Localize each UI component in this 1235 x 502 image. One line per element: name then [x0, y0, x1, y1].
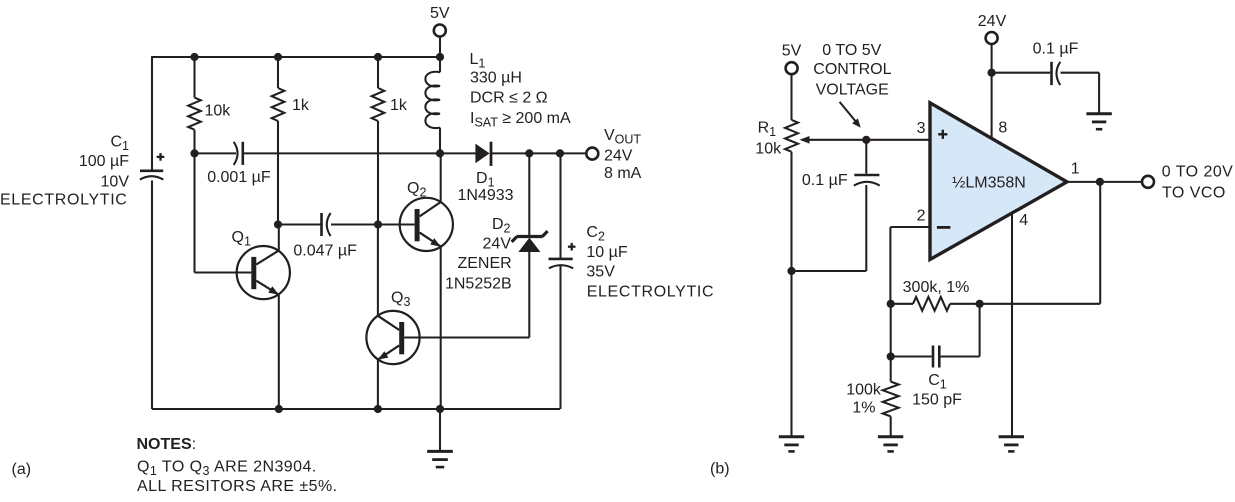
ground (pin 4) [999, 437, 1024, 452]
svg-text:0.001 µF: 0.001 µF [207, 169, 271, 186]
svg-text:ELECTROLYTIC: ELECTROLYTIC [0, 192, 128, 209]
svg-text:10 µF: 10 µF [586, 244, 627, 261]
wire pin 4 [1012, 212, 1028, 436]
wire Q1 collector [278, 225, 280, 251]
terminal 24V [978, 13, 1008, 139]
node Q1 emitter at rail [275, 405, 283, 413]
resistor 10k [188, 57, 231, 153]
svg-text:10k: 10k [755, 141, 782, 158]
pin 3 [917, 120, 926, 137]
node 0.1uF return [787, 267, 795, 275]
node 300k left [887, 300, 895, 308]
node L1 bottom [436, 149, 444, 157]
label control voltage [813, 42, 891, 98]
terminal VOUT [586, 127, 641, 182]
node 1k-2 top [274, 53, 282, 61]
node 24V [988, 69, 996, 77]
svg-text:0 TO 20V: 0 TO 20V [1162, 163, 1234, 180]
svg-text:0.1 µF: 0.1 µF [802, 172, 848, 189]
wire 0.047 row left [278, 223, 321, 225]
node C1 left [887, 352, 895, 360]
svg-text:½LM358N: ½LM358N [952, 175, 1026, 192]
wire pin 1 output [1066, 160, 1142, 182]
svg-text:1k: 1k [292, 97, 310, 114]
capacitor 0.001 uF [207, 142, 271, 186]
svg-text:4: 4 [1019, 212, 1028, 229]
svg-text:NOTES:: NOTES: [137, 436, 197, 453]
svg-text:100 µF: 100 µF [79, 153, 129, 170]
node output [1096, 178, 1104, 186]
wire left vertical lower [151, 181, 153, 410]
svg-text:VOLTAGE: VOLTAGE [816, 82, 889, 99]
node zener top [525, 149, 533, 157]
resistor 100k 1% [846, 382, 899, 436]
capacitor 0.047 uF [293, 213, 357, 260]
svg-text:300k, 1%: 300k, 1% [903, 279, 970, 296]
svg-text:1k: 1k [390, 97, 408, 114]
wire bottom rail [152, 408, 560, 410]
terminal 5V (b) [782, 42, 802, 120]
wire left vertical upper [151, 56, 153, 169]
wire output row right [492, 152, 586, 154]
label C1 value [0, 133, 129, 208]
svg-text:10V: 10V [101, 174, 130, 191]
wire Q2 emitter [440, 247, 442, 409]
label L1 values [470, 51, 571, 130]
label (b) [710, 461, 730, 478]
label (a) [12, 461, 32, 478]
wire Q3 base row [404, 336, 529, 338]
terminal 5V [430, 5, 450, 57]
svg-text:TO VCO: TO VCO [1162, 185, 1226, 202]
node 0.047 row right [374, 220, 382, 228]
svg-text:35V: 35V [586, 264, 615, 281]
svg-text:8: 8 [998, 120, 1007, 137]
node control input [862, 136, 870, 144]
svg-text:5V: 5V [782, 42, 802, 59]
wire Q3 collector [377, 225, 379, 316]
wire control arrow [840, 102, 861, 128]
svg-text:ZENER: ZENER [457, 255, 511, 272]
wire Q2 collector [440, 153, 442, 202]
wire left vertical (b) [790, 152, 792, 436]
svg-text:24V: 24V [978, 13, 1007, 30]
capacitor C1 electrolytic [140, 153, 165, 180]
svg-text:1%: 1% [852, 400, 875, 417]
node 0.047 row left [274, 220, 282, 228]
node C2 top [556, 149, 564, 157]
ground (a) [427, 409, 453, 467]
wire output row mid [244, 152, 476, 154]
node 1k-3 top [374, 53, 382, 61]
node 5V rail [436, 53, 444, 61]
node 300k right [976, 300, 984, 308]
capacitor C1 150pF [891, 304, 980, 409]
svg-text:1N5252B: 1N5252B [445, 276, 512, 293]
op-amp U1 half LM358N [930, 103, 1067, 260]
wire Q1 emitter [278, 295, 280, 409]
resistor 1k (third) [372, 57, 408, 225]
svg-text:0.1 µF: 0.1 µF [1033, 41, 1079, 58]
svg-text:150 pF: 150 pF [912, 392, 962, 409]
svg-text:(b): (b) [710, 461, 730, 478]
inductor L1 [425, 57, 440, 153]
svg-text:(a): (a) [12, 461, 32, 478]
wire feedback from output [980, 182, 1101, 304]
node 10k top [190, 53, 198, 61]
label C2 values [586, 224, 714, 301]
svg-text:3: 3 [917, 120, 926, 137]
wire output row left [195, 152, 237, 154]
svg-text:Q1 TO Q3 ARE 2N3904.: Q1 TO Q3 ARE 2N3904. [137, 459, 317, 479]
node Q3 emitter at rail [374, 405, 382, 413]
svg-text:2: 2 [917, 208, 926, 225]
terminal output [1142, 163, 1233, 201]
node ground rail [436, 405, 444, 413]
ground (100k) [878, 437, 903, 452]
svg-text:330 µH: 330 µH [470, 69, 522, 86]
capacitor C2 electrolytic [549, 153, 576, 409]
svg-text:1N4933: 1N4933 [458, 187, 514, 204]
svg-text:5V: 5V [430, 5, 450, 22]
svg-text:ALL RESITORS ARE ±5%.: ALL RESITORS ARE ±5%. [137, 478, 338, 495]
resistor 300k 1% [891, 279, 980, 311]
svg-text:0.047 µF: 0.047 µF [293, 243, 357, 260]
transistor Q1 [195, 229, 290, 299]
svg-text:0 TO 5V: 0 TO 5V [822, 42, 881, 59]
svg-text:8 mA: 8 mA [604, 165, 642, 182]
svg-text:ELECTROLYTIC: ELECTROLYTIC [587, 283, 715, 300]
svg-text:CONTROL: CONTROL [813, 61, 891, 78]
svg-text:24V: 24V [483, 235, 512, 252]
wire Q1 base vertical [193, 153, 195, 272]
svg-text:100k: 100k [846, 382, 882, 399]
wire 0.047 row right [331, 223, 415, 225]
potentiometer R1 10k [755, 119, 866, 157]
svg-text:10k: 10k [205, 103, 232, 120]
ground (bypass) [1086, 114, 1111, 129]
wire Q3 emitter [377, 360, 379, 409]
diode D1 1N4933 [458, 142, 514, 204]
capacitor 0.1uF (bypass) [992, 41, 1100, 114]
label notes [137, 436, 338, 495]
wire pin 2 [890, 208, 929, 304]
transistor Q2 [400, 180, 453, 251]
wire top rail [152, 56, 440, 58]
zener diode D2 [512, 153, 548, 337]
svg-text:24V: 24V [604, 148, 633, 165]
capacitor 0.1uF (input) [792, 140, 880, 271]
ground (left vertical) [779, 437, 804, 452]
node 10k bottom [190, 149, 198, 157]
transistor Q3 mirrored [366, 290, 419, 365]
wire to pin 3 [866, 139, 929, 141]
svg-text:DCR ≤ 2 Ω: DCR ≤ 2 Ω [470, 90, 548, 107]
label D2 values [445, 216, 512, 293]
wire inverting node vertical [890, 304, 892, 382]
resistor 1k (second) [272, 57, 310, 225]
svg-text:1: 1 [1071, 160, 1080, 177]
